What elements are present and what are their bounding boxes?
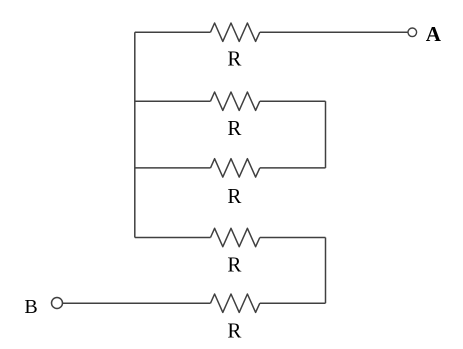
svg-text:R: R [227, 253, 241, 277]
wire row4 left [135, 237, 211, 239]
resistor R5 [211, 294, 260, 312]
terminal B [52, 298, 63, 309]
wire row1 left [135, 31, 211, 33]
terminal A [408, 28, 417, 37]
resistor R2 [211, 92, 260, 110]
wire right vertical joining R2 and R3 [325, 101, 327, 168]
node A [426, 22, 442, 46]
left bus wire [134, 32, 136, 237]
svg-text:B: B [24, 296, 37, 318]
wire right vertical joining R4 and R5 [325, 238, 327, 304]
wire row3 right [260, 167, 326, 169]
svg-text:R: R [227, 116, 241, 140]
wire row2 right [260, 100, 326, 102]
wire row4 right [260, 237, 326, 239]
svg-text:R: R [227, 319, 241, 343]
node B [24, 296, 37, 318]
wire row2 left [135, 100, 211, 102]
wire row3 left [135, 167, 211, 169]
value label R (R2) [227, 116, 241, 140]
resistor R4 [211, 228, 260, 246]
svg-text:R: R [227, 47, 241, 71]
wire row5 right [260, 302, 326, 304]
resistor R1 [211, 23, 260, 41]
value label R (R4) [227, 253, 241, 277]
resistor R3 [211, 159, 260, 177]
value label R (R1) [227, 47, 241, 71]
svg-text:A: A [426, 22, 442, 46]
value label R (R3) [227, 184, 241, 208]
value label R (R5) [227, 319, 241, 343]
wire row5 left from terminal B [63, 302, 211, 304]
wire row1 right to terminal A [260, 31, 408, 33]
svg-text:R: R [227, 184, 241, 208]
